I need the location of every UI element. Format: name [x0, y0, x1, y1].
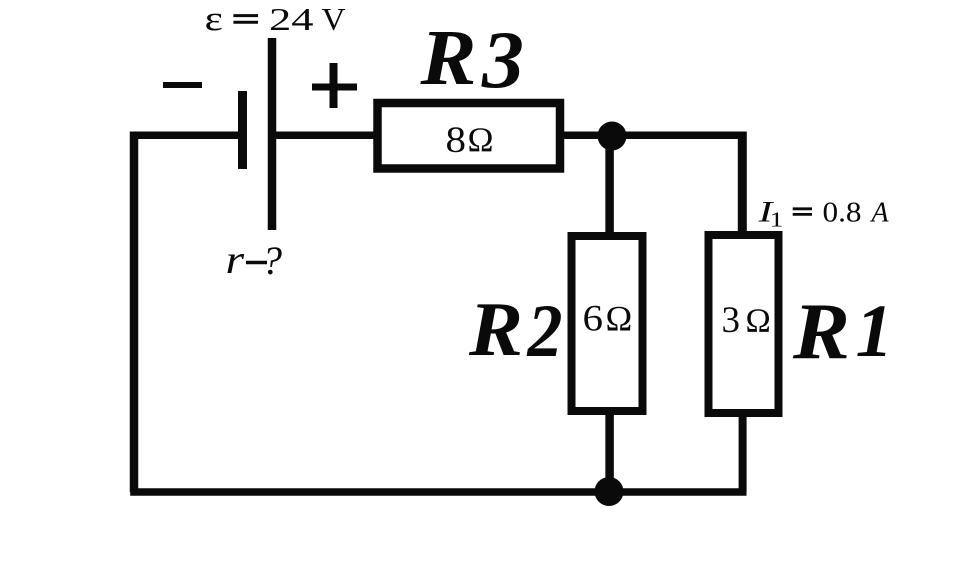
svg-text:r: r — [226, 237, 245, 282]
svg-text:Ω: Ω — [468, 121, 494, 160]
resistor R3 box — [378, 103, 561, 169]
wire: middle vertical from top node down to R2 top — [605, 136, 614, 235]
svg-text:R: R — [419, 15, 476, 102]
svg-text:ε: ε — [205, 0, 223, 38]
battery short negative plate — [238, 91, 247, 169]
plus sign label — [312, 63, 357, 108]
svg-text:?: ? — [262, 238, 282, 283]
svg-text:V: V — [322, 1, 346, 37]
svg-text:Ω: Ω — [746, 303, 771, 340]
label: internal resistance r — [226, 237, 283, 283]
wire: bottom horizontal — [130, 488, 746, 496]
battery long positive plate — [268, 38, 277, 230]
svg-text:A: A — [870, 198, 890, 229]
minus sign label — [163, 82, 202, 88]
label: R1 value 3 ohm — [722, 300, 771, 341]
svg-text:8: 8 — [446, 120, 467, 161]
svg-text:2: 2 — [527, 290, 563, 373]
label: R3 designator — [419, 14, 524, 105]
node: top junction dot — [598, 122, 627, 151]
label: R2 designator — [468, 286, 563, 373]
label: current I1 = 0.8 A — [757, 196, 889, 232]
label: R1 designator — [792, 289, 893, 377]
svg-text:24: 24 — [269, 1, 314, 37]
svg-text:0.8: 0.8 — [823, 198, 862, 229]
svg-text:Ω: Ω — [606, 299, 633, 339]
resistor R2 box — [572, 236, 643, 411]
label: equals bars of emf — [233, 16, 258, 23]
wire: R1 bottom down to bottom wire — [739, 412, 747, 492]
label: r minus bar — [246, 261, 267, 265]
label: equals bars of I1 — [793, 209, 812, 215]
wire: left vertical side — [130, 132, 139, 493]
label: emf value — [205, 0, 346, 38]
wire: right vertical from top wire down to R1 top — [738, 132, 747, 236]
svg-text:3: 3 — [722, 300, 741, 341]
svg-text:1: 1 — [856, 290, 894, 373]
wire: R3 right to right corner — [560, 131, 742, 139]
svg-text:1: 1 — [770, 208, 784, 232]
node: bottom junction dot — [595, 477, 624, 506]
svg-text:R: R — [792, 289, 850, 377]
wire: R2 bottom to bottom node — [605, 412, 614, 492]
svg-text:6: 6 — [583, 299, 604, 340]
wire: battery plus plate to R3 left — [272, 131, 378, 139]
svg-text:3: 3 — [481, 14, 524, 105]
label: R2 value 6 ohm — [583, 299, 633, 340]
svg-text:R: R — [468, 286, 523, 372]
resistor R1 box — [709, 235, 779, 413]
wire: top-left horizontal from left corner to battery minus plate — [130, 131, 240, 139]
label: R3 value 8 ohm — [446, 120, 494, 161]
